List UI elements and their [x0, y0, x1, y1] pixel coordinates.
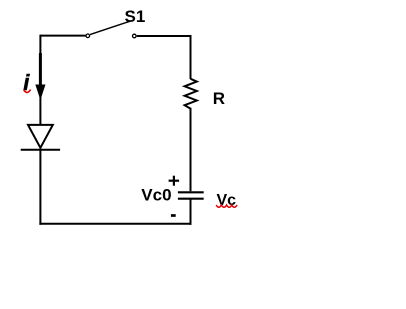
wire bottom horizontal: [39, 223, 191, 225]
svg-text:R: R: [213, 89, 225, 108]
label plus: [169, 176, 180, 186]
spellcheck squiggle under Vc: [216, 205, 237, 207]
switch S1 right contact circle: [133, 34, 137, 38]
svg-text:S1: S1: [125, 7, 146, 26]
wire left vertical upper: [39, 35, 41, 124]
capacitor top plate: [178, 191, 204, 193]
label minus: [171, 214, 176, 217]
svg-text:Vc0: Vc0: [141, 186, 171, 205]
diode cathode bar: [21, 149, 60, 151]
switch S1 left contact circle: [86, 34, 90, 38]
current arrow shaft: [39, 53, 42, 87]
wire top-right horizontal: [137, 35, 192, 37]
diode D1 triangle: [28, 125, 53, 148]
capacitor bottom plate: [178, 198, 204, 200]
spellcheck squiggle under i: [24, 90, 31, 93]
current arrow head: [35, 85, 45, 101]
switch S1 blade: [90, 21, 130, 34]
wire right vertical upper: [190, 35, 192, 79]
wire left vertical lower: [39, 149, 41, 225]
wire top-left horizontal: [40, 35, 85, 37]
wire right vertical middle: [190, 108, 192, 191]
wire right vertical lower: [190, 199, 192, 225]
resistor R: [185, 79, 197, 109]
